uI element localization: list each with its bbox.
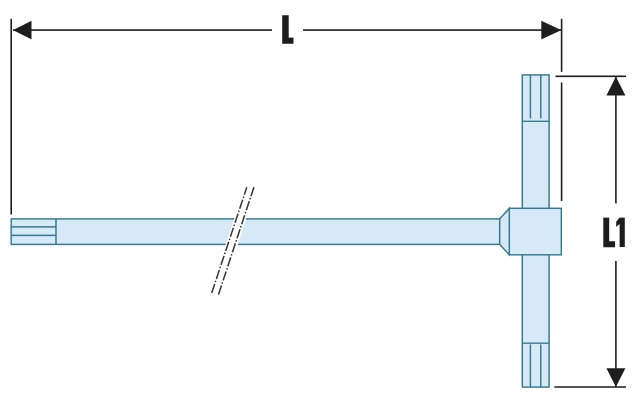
extension line L1 bottom xyxy=(554,386,626,388)
dimension line L left segment xyxy=(13,29,272,31)
hex tip flat line 1 xyxy=(11,226,56,228)
break line right xyxy=(219,187,255,295)
break line left xyxy=(212,187,247,293)
dimension line L1 upper segment xyxy=(615,77,617,203)
handle bottom hex line 2 xyxy=(540,344,542,387)
extension line left xyxy=(10,19,12,215)
break gap mask xyxy=(209,185,257,296)
handle top hex line 1 xyxy=(529,75,531,119)
hex tip separator xyxy=(55,219,57,245)
handle bar xyxy=(522,75,549,387)
label L xyxy=(282,15,293,43)
dimension line L1 lower segment xyxy=(615,261,617,387)
extension line right upper xyxy=(561,19,563,72)
hex tip flat line 2 xyxy=(11,234,56,236)
handle top hex line 2 xyxy=(540,75,542,119)
taper transition xyxy=(500,208,510,255)
label L1 xyxy=(603,218,615,248)
arrowhead L right xyxy=(541,21,561,40)
handle bottom hex separator xyxy=(522,342,549,344)
arrowhead L left xyxy=(13,21,32,40)
extension line L1 top xyxy=(556,75,627,77)
arrowhead L1 down xyxy=(606,368,625,387)
dimension line L right segment xyxy=(303,29,561,31)
shaft body xyxy=(11,219,500,245)
handle bottom hex line 1 xyxy=(529,344,531,387)
arrowhead L1 up xyxy=(606,77,625,96)
centre block xyxy=(509,208,561,255)
extension line right lower xyxy=(561,83,563,202)
handle top hex separator xyxy=(522,120,549,122)
